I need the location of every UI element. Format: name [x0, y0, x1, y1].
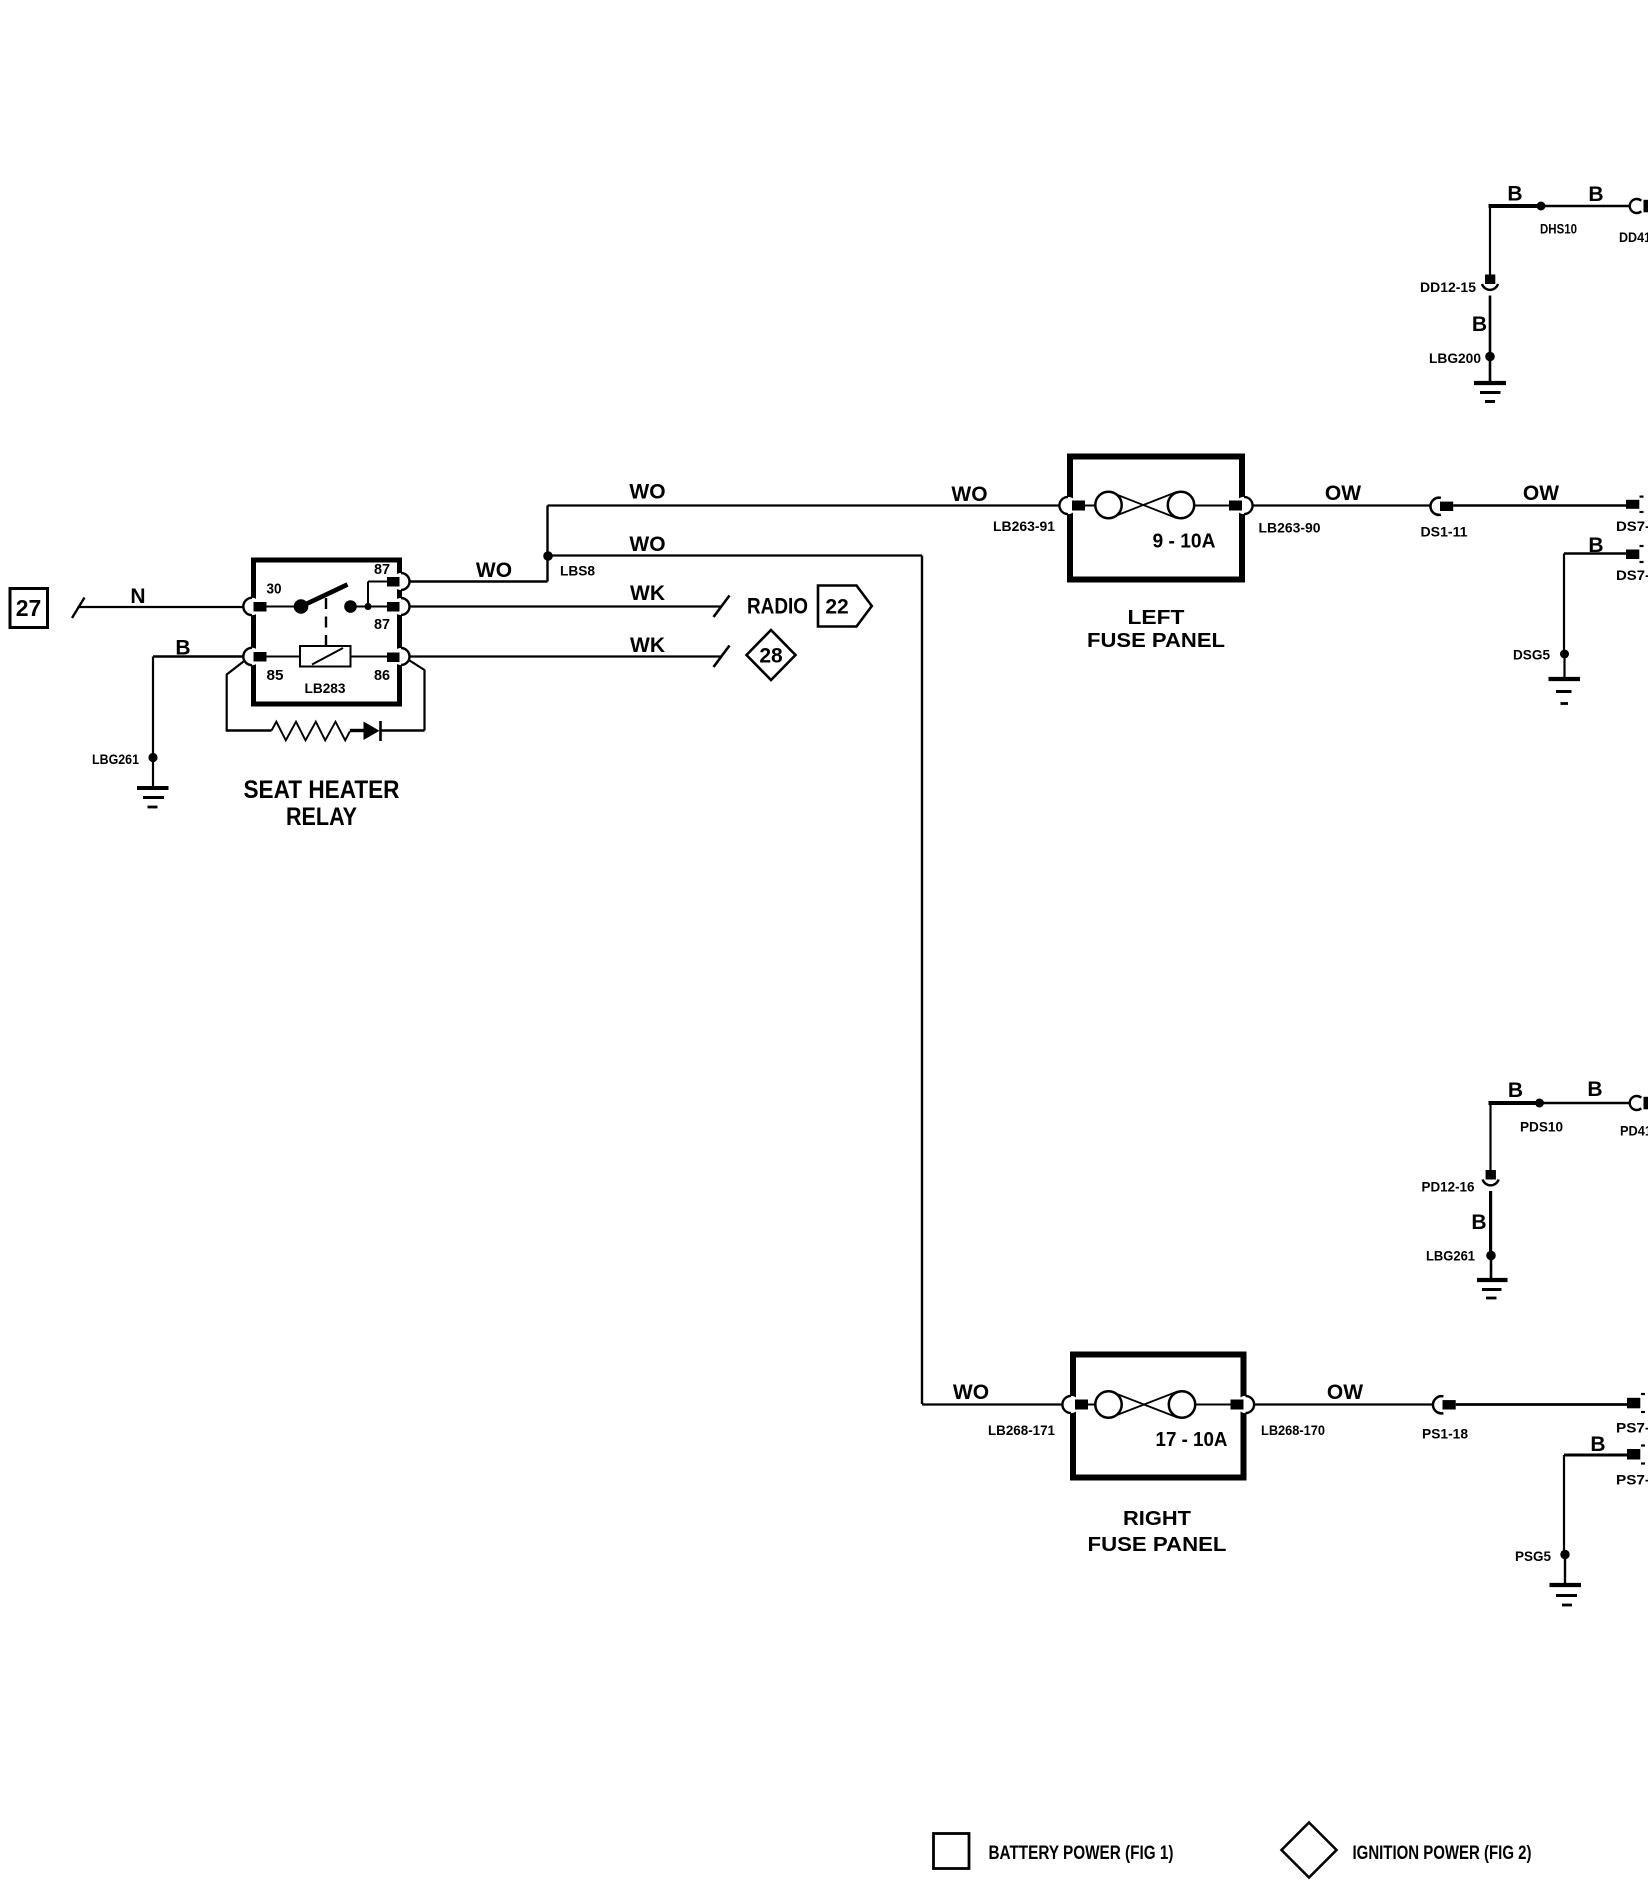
svg-text:OW: OW: [1325, 482, 1361, 505]
wire loop left vertical: [226, 674, 228, 732]
svg-text:86: 86: [374, 667, 390, 684]
ground (DSG5): [1549, 679, 1581, 704]
svg-text:WK: WK: [630, 634, 665, 657]
wire vertical at LBS8: [546, 506, 548, 582]
relay pin 87 (bottom): [387, 602, 400, 612]
svg-text:WK: WK: [630, 582, 665, 605]
wire loop right vertical: [423, 670, 425, 731]
junction (87 tie): [364, 603, 371, 610]
wire B horizontal thick (corner to PDS10): [1489, 1101, 1540, 1105]
svg-text:DS7-: DS7-: [1616, 567, 1648, 583]
off-page connector 28 (ignition power): [747, 630, 796, 680]
wire loop left diagonal: [227, 662, 244, 675]
svg-text:WO: WO: [629, 533, 665, 556]
svg-text:DD12-15: DD12-15: [1420, 279, 1476, 295]
relay pin 30: [254, 602, 267, 612]
fuse 17 - 10A: [1088, 1391, 1231, 1417]
legend battery power symbol: [934, 1834, 970, 1869]
svg-text:27: 27: [16, 595, 42, 621]
wire: [1490, 1256, 1493, 1279]
off-page connector PD4 (cut at edge): [1630, 1096, 1642, 1110]
svg-text:PSG5: PSG5: [1515, 1548, 1551, 1564]
svg-text:B: B: [1507, 183, 1522, 206]
wire B: [1564, 552, 1627, 555]
off-page connector 22: [818, 586, 872, 627]
relay pin scallops: [243, 573, 409, 665]
wire B horizontal (PDS10 to edge connector): [1539, 1102, 1631, 1104]
svg-text:DS1-11: DS1-11: [1421, 524, 1468, 540]
wire N: [78, 606, 244, 608]
legend ignition power symbol: [1282, 1823, 1337, 1878]
pin LB263-90: [1229, 501, 1242, 511]
wire B vertical: [1489, 1191, 1492, 1252]
wire WO long vertical: [921, 556, 923, 1405]
connector PD12-16: [1486, 1170, 1496, 1180]
wire WO into panel: [922, 1403, 1062, 1405]
svg-text:B: B: [1472, 313, 1487, 336]
wire: [1489, 357, 1492, 381]
svg-text:B: B: [1471, 1211, 1486, 1234]
svg-text:WO: WO: [476, 559, 512, 582]
svg-text:PS7-: PS7-: [1616, 1420, 1648, 1436]
wire: [152, 758, 154, 787]
svg-text:DSG5: DSG5: [1513, 647, 1550, 663]
off-page connector 27: [10, 589, 48, 628]
svg-text:LBG261: LBG261: [92, 751, 139, 767]
wire B vertical: [1563, 554, 1565, 651]
svg-text:WO: WO: [629, 481, 665, 504]
svg-text:LB263-91: LB263-91: [993, 518, 1055, 534]
svg-text:DS7-: DS7-: [1616, 518, 1648, 534]
svg-text:DD41: DD41: [1619, 229, 1648, 245]
relay pin 87 (top): [387, 577, 400, 587]
relay switch blade: [303, 585, 348, 606]
svg-text:RIGHT: RIGHT: [1123, 1508, 1191, 1530]
wire: [1563, 654, 1565, 678]
svg-text:RADIO: RADIO: [747, 594, 808, 619]
svg-text:OW: OW: [1523, 482, 1559, 505]
relay switch contact (NO): [344, 600, 357, 613]
svg-text:FUSE PANEL: FUSE PANEL: [1087, 630, 1225, 652]
connector PS1-18: [1433, 1396, 1443, 1413]
svg-text:LBS8: LBS8: [560, 563, 595, 579]
diode (suppression): [364, 722, 380, 741]
wire loop right diagonal: [408, 660, 425, 671]
svg-text:PS1-18: PS1-18: [1422, 1426, 1468, 1442]
svg-text:B: B: [1590, 1433, 1605, 1456]
pin scallops: [1059, 497, 1252, 514]
svg-text:FUSE PANEL: FUSE PANEL: [1088, 1534, 1227, 1556]
junction LBS8: [543, 551, 553, 561]
svg-text:LBG261: LBG261: [1426, 1248, 1475, 1264]
wire OW: [1453, 504, 1627, 506]
svg-text:PD12-16: PD12-16: [1422, 1179, 1475, 1195]
wire WK (to 28): [410, 655, 723, 657]
wire OW: [1254, 1403, 1433, 1405]
svg-text:RELAY: RELAY: [286, 803, 357, 831]
svg-text:87: 87: [374, 616, 390, 633]
pin LB263-91: [1072, 501, 1085, 511]
svg-text:30: 30: [267, 581, 282, 598]
wire WK (to RADIO): [410, 605, 723, 607]
wire WO (pin 87 stub): [410, 580, 548, 583]
resistor (suppression): [272, 722, 350, 741]
slash (wire break): [714, 596, 730, 618]
relay coil: [300, 646, 351, 667]
svg-text:PS7-: PS7-: [1616, 1472, 1648, 1488]
svg-text:IGNITION POWER (FIG 2): IGNITION POWER (FIG 2): [1353, 1843, 1532, 1864]
svg-text:LB283: LB283: [305, 681, 346, 696]
ground (LBG261): [1477, 1280, 1508, 1298]
junction PSG5: [1560, 1550, 1569, 1559]
right fuse panel box: [1073, 1355, 1244, 1478]
relay SEAT HEATER RELAY box: [254, 560, 400, 704]
svg-text:9 - 10A: 9 - 10A: [1153, 531, 1216, 553]
ground (PSG5): [1550, 1585, 1582, 1605]
svg-text:B: B: [1588, 183, 1603, 206]
relay switch contact (common): [267, 606, 296, 608]
ground (LBG261): [137, 788, 169, 807]
svg-text:17 - 10A: 17 - 10A: [1156, 1429, 1228, 1451]
slash (wire break): [714, 646, 730, 668]
off-page pin PS7 (top): [1627, 1398, 1640, 1409]
wire B: [1564, 1454, 1628, 1457]
svg-text:LBG200: LBG200: [1429, 350, 1481, 366]
wire B vertical: [1489, 1103, 1491, 1171]
junction LBG261: [1486, 1251, 1496, 1261]
wire OW: [1253, 504, 1431, 506]
svg-text:LB268-170: LB268-170: [1261, 1422, 1325, 1438]
wire WO top (to left fuse panel): [548, 504, 1060, 506]
wire pin85 to coil: [267, 656, 301, 658]
ground (LBG200): [1474, 383, 1506, 402]
junction PDS10: [1535, 1099, 1544, 1108]
wire coil to pin86: [351, 656, 388, 658]
pin LB268-171: [1075, 1400, 1088, 1410]
left fuse panel box: [1070, 457, 1242, 580]
relay pin 85: [254, 652, 267, 662]
svg-text:OW: OW: [1327, 1381, 1363, 1404]
wire B vertical: [1563, 1455, 1565, 1551]
fuse 9 - 10A: [1085, 492, 1229, 518]
svg-text:LB268-171: LB268-171: [988, 1422, 1055, 1438]
svg-text:BATTERY POWER (FIG 1): BATTERY POWER (FIG 1): [989, 1843, 1174, 1864]
relay pin 86: [387, 653, 400, 663]
off-page pin PS7 (bottom): [1627, 1449, 1640, 1460]
wire loop bottom: [227, 729, 272, 731]
pin scallops: [1062, 1396, 1254, 1413]
svg-text:PD41: PD41: [1620, 1123, 1648, 1139]
off-page pin DS7 (top): [1626, 500, 1639, 509]
svg-text:87: 87: [374, 561, 390, 578]
wire B horizontal (DHS10 to edge connector): [1541, 205, 1631, 207]
wire B vertical: [1489, 206, 1491, 276]
junction DHS10: [1537, 202, 1546, 211]
wire B: [153, 655, 244, 657]
svg-text:PDS10: PDS10: [1520, 1119, 1563, 1135]
wire B vertical: [1489, 296, 1492, 355]
wire WO second (to right fuse panel): [549, 554, 923, 556]
svg-text:28: 28: [759, 645, 783, 668]
svg-text:LEFT: LEFT: [1128, 607, 1185, 629]
connector DS1-11: [1430, 498, 1440, 515]
wire: [381, 729, 425, 731]
off-page pin DS7 (bottom): [1626, 550, 1639, 560]
wire B horizontal thick (corner to DHS10): [1489, 204, 1542, 208]
svg-text:B: B: [1587, 1078, 1602, 1101]
junction DSG5: [1560, 650, 1569, 659]
relay actuator dashed link: [325, 598, 327, 645]
wire B vertical: [152, 657, 154, 754]
slash (wire break): [72, 598, 85, 619]
junction LBG200: [1485, 352, 1495, 362]
svg-text:WO: WO: [953, 1381, 989, 1404]
svg-text:N: N: [130, 585, 145, 608]
svg-text:85: 85: [267, 667, 284, 684]
connector DD12-15: [1485, 275, 1495, 285]
svg-text:DHS10: DHS10: [1540, 221, 1577, 237]
wire: [350, 729, 364, 732]
svg-text:WO: WO: [951, 483, 987, 506]
svg-text:B: B: [175, 637, 190, 660]
svg-text:SEAT HEATER: SEAT HEATER: [244, 776, 400, 804]
svg-text:LB263-90: LB263-90: [1259, 520, 1321, 536]
off-page connector DD4 (cut at edge): [1630, 199, 1642, 213]
junction LBG261: [148, 753, 157, 762]
wire OW: [1456, 1403, 1628, 1406]
wire: [1564, 1555, 1566, 1584]
pin LB268-170: [1231, 1400, 1244, 1410]
svg-text:22: 22: [825, 596, 848, 619]
svg-text:B: B: [1508, 1079, 1523, 1102]
